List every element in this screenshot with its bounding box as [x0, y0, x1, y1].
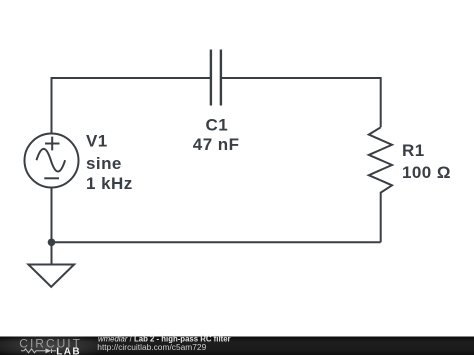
svg-text:C1: C1: [206, 116, 229, 135]
svg-text:R1: R1: [402, 141, 425, 160]
svg-text:sine: sine: [86, 154, 122, 173]
svg-text:1 kHz: 1 kHz: [86, 174, 133, 193]
svg-text:http://circuitlab.com/c5am729: http://circuitlab.com/c5am729: [97, 342, 206, 352]
svg-text:LAB: LAB: [56, 346, 81, 355]
svg-text:V1: V1: [86, 131, 108, 150]
svg-text:47 nF: 47 nF: [193, 135, 240, 154]
svg-text:100 Ω: 100 Ω: [402, 163, 451, 182]
